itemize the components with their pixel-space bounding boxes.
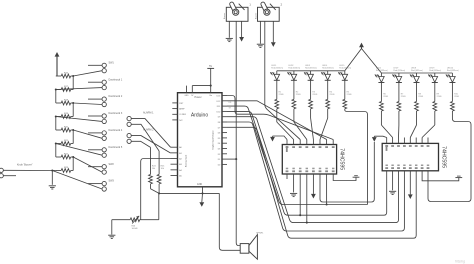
svg-text:D13: D13 [217,96,222,98]
wire R4 to U2 [320,109,328,140]
svg-text:220Ω: 220Ω [347,94,352,96]
wire U2 pin7 to bus L1 [326,179,328,205]
svg-text:IO REF: IO REF [179,114,186,116]
net arrow chip1 vcc [270,136,287,142]
svg-text:Red (633nm): Red (633nm) [411,70,423,72]
resistor R3 [309,80,318,109]
wire U3 pin7 gnd flag [422,176,462,181]
wire buzzer2 leg gnd [259,21,261,43]
wire buzzer1 leg gnd [228,21,230,38]
svg-text:D3: D3 [218,149,221,151]
node knob-gnd junction [51,169,53,171]
LED LED8 [410,67,423,82]
svg-text:Knob “Buzzer”: Knob “Buzzer” [17,164,33,167]
wire ladder right segment [72,76,74,90]
svg-text:10k: 10k [152,168,155,170]
IC U2 74HC595 [282,140,344,180]
net labels on wires [229,102,232,109]
wire alarm1 pin2 to R25 [131,124,159,151]
ground net arrow (arduino) [199,193,204,206]
svg-text:GND: GND [197,183,203,186]
buzzer LS1 [224,1,251,21]
svg-text:220Ω: 220Ω [330,94,335,96]
svg-text:D12: D12 [217,101,222,103]
svg-text:A2: A2 [179,158,182,161]
LED LED5 [338,65,351,80]
svg-text:GND: GND [185,95,190,97]
wire D1 to speaker [227,158,236,160]
ground (buzzer1) [226,38,233,41]
wire R3 to U2 [311,109,314,140]
svg-text:74HC595: 74HC595 [339,148,345,170]
ground (ladder bottom) [49,186,56,189]
node ladder junction [55,142,57,144]
net arrow buzzer1 [239,21,244,41]
wire ground bus [159,192,219,194]
node speaker pin junction [235,158,237,160]
svg-text:5V: 5V [209,65,212,68]
switch SW1 [73,61,114,76]
node U2-B3 [306,222,308,224]
svg-text:Doorknock 2: Doorknock 2 [109,95,123,98]
svg-text:Buzzer: Buzzer [224,12,226,19]
wire D11 to U2 pin7 [227,101,327,140]
svg-text:Doorknock 4: Doorknock 4 [109,129,123,132]
wire V to led bus 2 [362,49,382,74]
resistor R16 [56,72,73,78]
svg-text:DS: DS [229,102,232,104]
resistor R2 [292,80,301,109]
wire pot right to gnd bus [158,193,160,219]
wire R10 rail to U3 pin [428,111,471,202]
svg-text:SPKR1: SPKR1 [256,233,264,235]
wire gnd bus to speaker [219,193,240,250]
wire alarm2 pin1 to A1 [131,136,170,153]
svg-text:Red (633nm): Red (633nm) [429,70,441,72]
svg-text:D9: D9 [218,117,221,119]
wire bus L1 (to LED5 net) [227,106,368,204]
svg-text:N/C: N/C [179,120,183,122]
wire bus B5 [227,127,416,238]
resistor R24 [149,147,160,193]
node ladder junction [55,115,57,117]
ground (U3) [389,191,396,194]
svg-text:Analog Input: Analog Input [184,154,187,167]
net arrow buzzer2 [271,21,276,47]
node ladder junction [55,88,57,90]
svg-text:Red (633nm): Red (633nm) [271,68,283,70]
wire bus B3 [227,117,399,223]
svg-text:Buzzer: Buzzer [255,12,257,19]
arduino right pin stubs [222,96,227,165]
wire alarm1 pin1 to A0 [131,119,170,148]
svg-text:220Ω: 220Ω [454,96,459,98]
net label 5V [207,65,214,85]
LED LED1 [270,65,283,80]
wire U3 pin2 gnd [392,177,394,191]
wire led bus 1 [277,70,345,72]
svg-text:D2: D2 [218,154,221,156]
resistor R21 [56,140,73,146]
wire U2 pin8 gnd flag [333,176,359,181]
svg-text:D7: D7 [218,127,221,129]
svg-text:D10: D10 [217,111,222,113]
resistor R20 [56,126,73,132]
svg-text:A0: A0 [179,146,182,149]
svg-text:Doorknock 3: Doorknock 3 [109,112,123,115]
svg-text:D6: D6 [218,133,221,135]
resistor R1 [275,80,284,109]
resistor R25 [157,151,165,193]
svg-text:10k: 10k [161,168,164,170]
net arrow U3 vcc [372,136,387,142]
wire ladder right segment [72,130,74,144]
buzzer LS2 [255,1,282,21]
svg-text:Red (633nm): Red (633nm) [288,68,300,70]
watermark [455,259,465,263]
wire bus B4 [227,122,404,231]
wire R8 to U3 [410,111,416,138]
svg-text:A1: A1 [179,152,182,155]
svg-text:ALARM 2: ALARM 2 [143,129,154,132]
resistor R5 [343,80,352,109]
switch Doorknock 3 [56,112,123,123]
LED LED9 [428,67,441,82]
speaker SPKR1 [240,233,264,260]
svg-text:2: 2 [281,3,283,7]
svg-text:Vin: Vin [209,95,212,97]
arduino top pins GND 5V Vin [187,86,211,93]
wire buzzer1 to speaker [236,21,240,245]
ground (U2) [290,193,297,196]
svg-text:AREF: AREF [179,108,185,111]
resistor R18 [56,99,73,105]
switch Doorknock 2 [73,95,123,106]
switch Doorknock 5 [56,144,123,158]
svg-text:D0: D0 [218,164,221,166]
switch SW2 [73,157,114,174]
LED LED6 [375,67,388,82]
svg-text:fritzing: fritzing [455,259,465,263]
IC U3 74HC595 [382,138,446,177]
arduino left pin stubs [171,103,178,176]
wire R7 to U3 [398,111,400,138]
power net 5V arrow (ladder supply) [55,52,60,76]
wire D13 to U2 pin8 [227,96,333,140]
svg-text:Red (633nm): Red (633nm) [393,70,405,72]
svg-text:Doorknock 1: Doorknock 1 [109,78,123,81]
svg-text:Red (633nm): Red (633nm) [376,70,388,72]
switch Doorknock 4 [73,129,123,140]
net arrow U2 pin5 [311,179,316,199]
svg-text:220Ω: 220Ω [296,94,301,96]
wire U2 pin4 to B3 [306,179,308,223]
svg-text:D11: D11 [217,106,221,108]
svg-text:D5: D5 [218,138,221,140]
node U2-B2 [299,214,301,216]
svg-text:220Ω: 220Ω [437,96,442,98]
resistor R4 [326,80,335,109]
wire pot wiper to A2 [141,159,171,220]
switch SW3 [52,171,114,192]
svg-text:Doorknock 5: Doorknock 5 [109,146,123,149]
node ladder junction [72,129,74,131]
wire ladder left segment [55,117,57,131]
wire R2 to U2 [294,109,307,140]
resistor R7 [397,83,406,112]
svg-text:SW2: SW2 [109,163,115,166]
svg-text:1: 1 [249,3,251,7]
resistor R19 [56,113,73,119]
node U2 pin7 junction [326,203,328,205]
potentiometer R26 [112,216,159,230]
svg-text:74HC595: 74HC595 [440,146,446,168]
connector ALARM 1 [127,112,154,127]
resistor R10 [451,83,460,112]
wire U2 pin2 gnd [293,179,295,192]
svg-text:ALARM 1: ALARM 1 [143,112,154,115]
svg-text:220Ω: 220Ω [279,94,284,96]
resistor R17 [56,86,73,92]
svg-text:Red (633nm): Red (633nm) [447,70,459,72]
LED LED10 [446,67,459,82]
svg-text:Power: Power [194,96,201,99]
wire 5V to Vin [192,85,210,87]
svg-text:SW1: SW1 [109,61,115,64]
wire alarm2 pin2 to R24 [131,141,150,147]
svg-text:ST: ST [229,108,232,110]
svg-text:A4: A4 [179,169,182,172]
wire V to led bus 1 [345,49,362,71]
LED LED2 [287,65,300,80]
wire R6 to U3 [381,111,392,138]
svg-text:SW3: SW3 [109,180,115,183]
IC U1 Arduino [178,93,223,187]
svg-text:RST: RST [179,103,184,105]
wire R5 around to U2 pin [345,109,368,205]
svg-text:Arduino: Arduino [191,113,208,119]
ground (buzzer2) [257,44,264,47]
LED LED4 [321,65,334,80]
svg-text:D8: D8 [218,122,221,124]
wire U2 pin3 to B2 [299,179,301,215]
LED LED3 [304,65,317,80]
resistor R9 [433,83,442,112]
ground (pot left) [108,220,115,239]
node ladder junction [72,156,74,158]
resistor R6 [380,83,389,112]
wire ladder right segment [72,103,74,117]
LED LED7 [392,67,405,82]
connector J1 Knob [0,164,52,178]
wire ladder left segment [55,144,57,158]
svg-text:D4: D4 [218,143,221,145]
svg-text:220Ω: 220Ω [401,96,406,98]
resistor R23 [56,167,73,173]
svg-text:A5: A5 [179,175,182,178]
arduino bottom GND pin [202,187,204,194]
connector ALARM 2 [127,129,154,144]
switch Doorknock 1 [56,78,123,89]
svg-text:Red (633nm): Red (633nm) [305,68,317,70]
power arrow (LED supply) [359,43,364,49]
resistor R8 [415,83,424,112]
wire R9 to U3 [422,111,435,138]
resistor R22 [56,153,73,159]
svg-text:Red (633nm): Red (633nm) [322,68,334,70]
svg-text:A3: A3 [179,163,182,166]
wire ladder left segment [55,90,57,104]
svg-text:100kΩ: 100kΩ [132,228,138,230]
wire led bus 2 [381,72,452,74]
wire R1 to U2 [277,109,294,140]
wire U2 pin6 to U3 vcc [320,142,374,202]
wire buzzer2 to shift register [265,21,300,139]
svg-text:Red (633nm): Red (633nm) [339,68,351,70]
svg-text:Digital Input/Output: Digital Input/Output [212,130,215,149]
wire ladder bottom to ground bus [52,171,56,185]
node ladder junction [72,102,74,104]
node R25-gnd [158,192,160,194]
node vin junction [210,85,212,87]
wire bus B2 [227,111,387,215]
svg-text:220Ω: 220Ω [383,96,388,98]
svg-text:220Ω: 220Ω [418,96,423,98]
svg-text:220Ω: 220Ω [312,94,317,96]
node ladder junction [72,75,74,77]
wire ladder right segment [72,157,74,171]
node arduino gnd junction [201,192,203,194]
svg-text:D1: D1 [218,159,221,161]
net arrow U3 pin5 [408,177,413,200]
